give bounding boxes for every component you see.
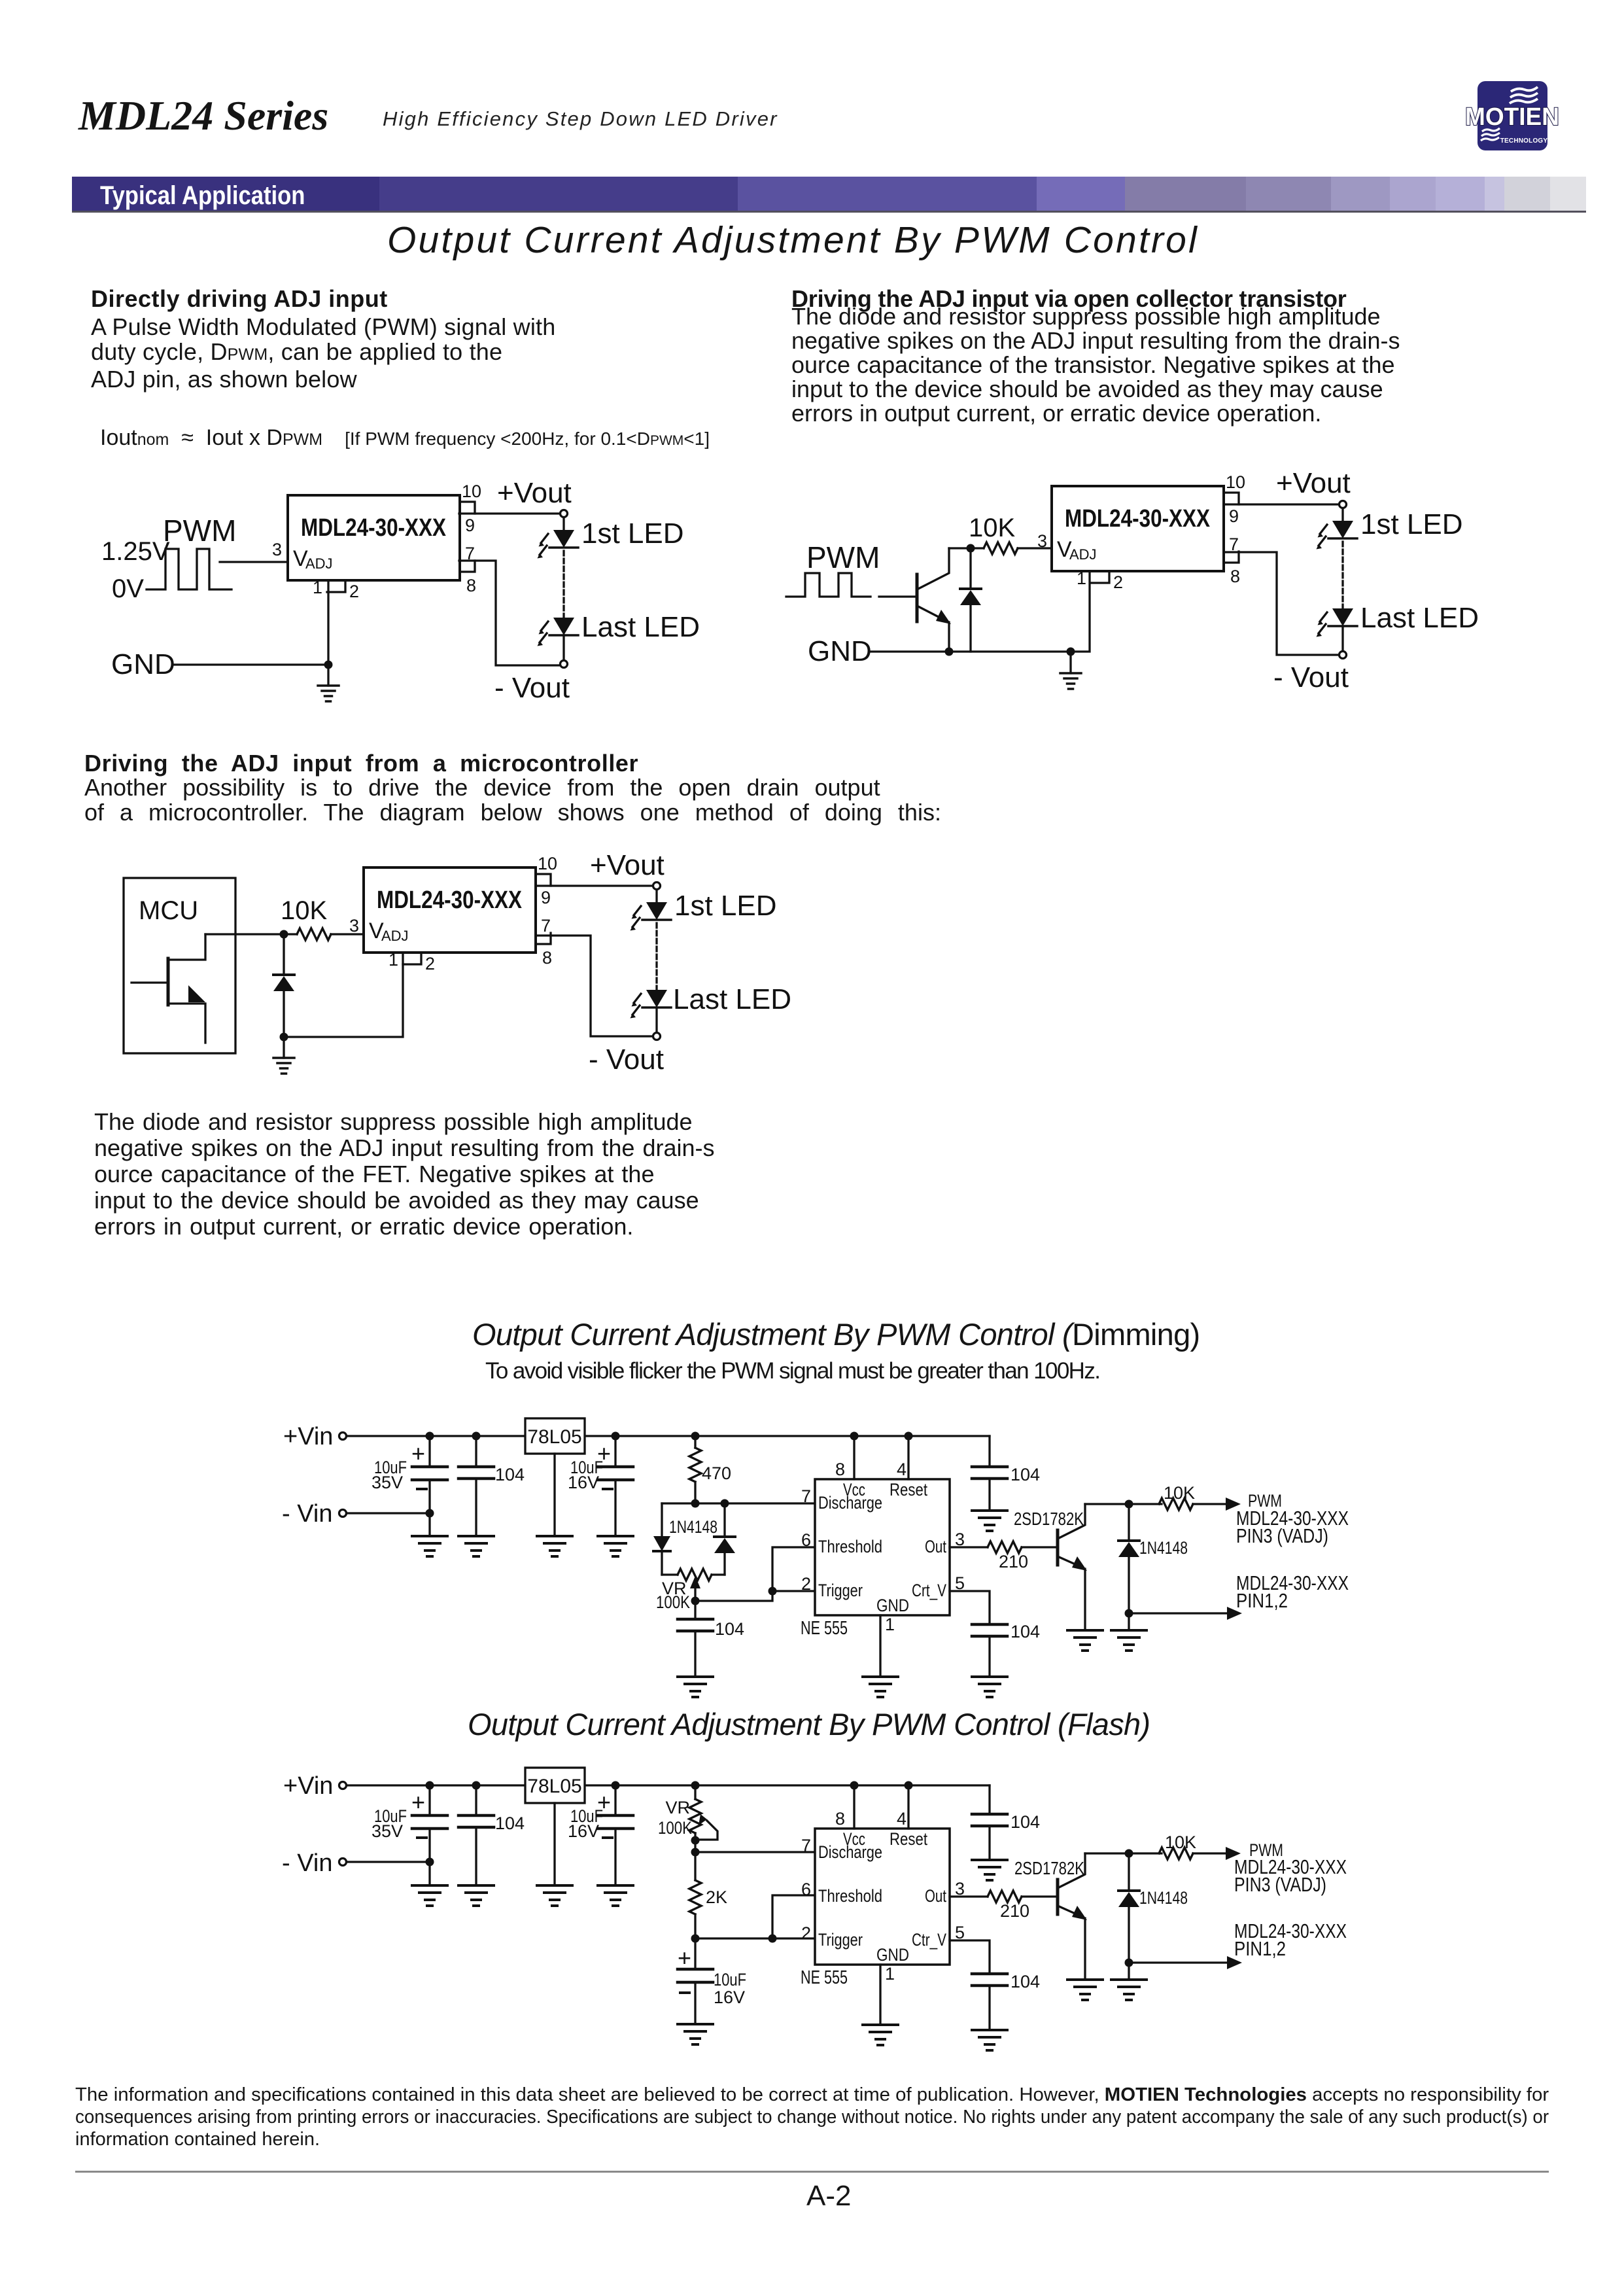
svg-text:210: 210: [1000, 1901, 1029, 1921]
svg-text:+Vout: +Vout: [497, 477, 572, 509]
svg-text:1N4148: 1N4148: [1139, 1538, 1188, 1558]
svg-text:Crt_V: Crt_V: [912, 1581, 946, 1600]
svg-text:10K: 10K: [1164, 1483, 1195, 1503]
svg-text:+Vin: +Vin: [283, 1423, 333, 1450]
svg-text:10K: 10K: [969, 514, 1015, 542]
svg-text:PWM: PWM: [163, 514, 236, 548]
svg-text:104: 104: [715, 1619, 744, 1639]
svg-text:78L05: 78L05: [527, 1776, 581, 1797]
svg-text:35V: 35V: [371, 1821, 403, 1841]
svg-text:1st LED: 1st LED: [674, 890, 777, 922]
svg-text:10K: 10K: [281, 896, 327, 925]
svg-text:16V: 16V: [714, 1988, 745, 2007]
svg-text:MCU: MCU: [139, 896, 198, 925]
svg-text:104: 104: [495, 1813, 525, 1833]
svg-text:470: 470: [702, 1463, 731, 1483]
svg-text:1N4148: 1N4148: [669, 1517, 717, 1537]
svg-text:Ctr_V: Ctr_V: [912, 1930, 946, 1950]
svg-text:100K: 100K: [658, 1818, 692, 1838]
svg-text:2SD1782K: 2SD1782K: [1014, 1858, 1084, 1878]
svg-text:3: 3: [1037, 531, 1047, 551]
svg-text:104: 104: [1011, 1622, 1040, 1641]
svg-text:16V: 16V: [568, 1473, 599, 1492]
svg-text:35V: 35V: [371, 1473, 403, 1492]
svg-text:210: 210: [999, 1552, 1028, 1571]
svg-text:100K: 100K: [656, 1592, 690, 1612]
svg-text:- Vout: - Vout: [494, 672, 570, 704]
svg-text:Last LED: Last LED: [673, 983, 791, 1015]
svg-text:+Vin: +Vin: [283, 1772, 333, 1800]
svg-text:104: 104: [495, 1465, 525, 1484]
svg-text:+: +: [678, 1944, 691, 1971]
svg-text:- Vout: - Vout: [1273, 661, 1349, 693]
svg-text:16V: 16V: [568, 1821, 599, 1841]
svg-text:1st LED: 1st LED: [1360, 508, 1463, 540]
svg-text:PIN1,2: PIN1,2: [1234, 1937, 1286, 1960]
svg-text:104: 104: [1011, 1972, 1040, 1991]
svg-text:PIN1,2: PIN1,2: [1236, 1589, 1288, 1612]
svg-text:0V: 0V: [112, 574, 144, 603]
svg-text:3: 3: [272, 540, 282, 559]
svg-text:+Vout: +Vout: [590, 849, 665, 881]
svg-text:2K: 2K: [706, 1887, 727, 1907]
svg-text:+Vout: +Vout: [1276, 467, 1351, 499]
svg-text:104: 104: [1011, 1465, 1040, 1484]
svg-text:+: +: [411, 1440, 425, 1467]
svg-text:2SD1782K: 2SD1782K: [1014, 1509, 1084, 1529]
svg-text:1N4148: 1N4148: [1139, 1888, 1188, 1908]
svg-text:- Vin: - Vin: [282, 1849, 332, 1877]
svg-text:1.25V: 1.25V: [101, 537, 170, 566]
svg-text:10uF: 10uF: [714, 1970, 746, 1989]
svg-text:GND: GND: [111, 648, 175, 680]
svg-text:PIN3 (VADJ): PIN3 (VADJ): [1236, 1524, 1328, 1547]
svg-text:GND: GND: [808, 635, 872, 667]
svg-text:Last LED: Last LED: [1360, 602, 1479, 634]
svg-text:+: +: [411, 1789, 425, 1815]
svg-text:- Vin: - Vin: [282, 1500, 332, 1528]
svg-text:10K: 10K: [1165, 1832, 1196, 1852]
svg-text:- Vout: - Vout: [589, 1043, 664, 1076]
svg-text:PIN3 (VADJ): PIN3 (VADJ): [1234, 1873, 1326, 1896]
svg-text:Last LED: Last LED: [581, 611, 700, 643]
svg-text:VR: VR: [665, 1798, 690, 1817]
svg-text:78L05: 78L05: [527, 1426, 581, 1448]
svg-text:3: 3: [349, 916, 359, 936]
svg-text:104: 104: [1011, 1812, 1040, 1832]
svg-text:PWM: PWM: [806, 540, 880, 574]
svg-text:1st LED: 1st LED: [581, 517, 684, 550]
